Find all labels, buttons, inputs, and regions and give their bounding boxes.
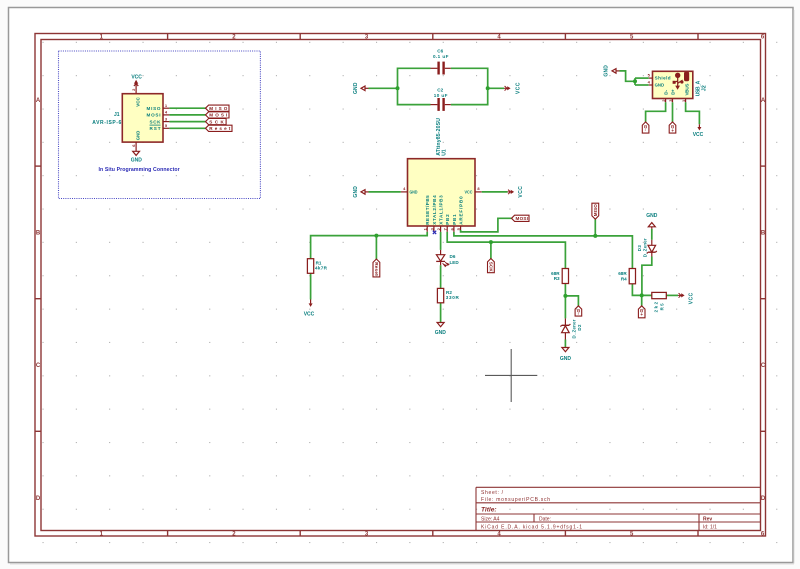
svg-text:Rev: Rev	[703, 516, 712, 522]
svg-text:In Situ Programming Connector: In Situ Programming Connector	[99, 167, 180, 173]
svg-text:C6: C6	[437, 48, 443, 53]
svg-text:D+: D+	[670, 125, 675, 132]
svg-text:D2: D2	[577, 324, 582, 331]
svg-text:D: D	[36, 496, 41, 502]
svg-text:AVR-ISP-6: AVR-ISP-6	[92, 120, 121, 126]
svg-text:68R: 68R	[551, 271, 560, 276]
svg-text:VCC: VCC	[693, 132, 704, 138]
svg-text:PB2: PB2	[445, 214, 450, 225]
svg-text:68R: 68R	[618, 271, 627, 276]
svg-text:MOSI: MOSI	[516, 216, 529, 221]
svg-text:SCK: SCK	[150, 119, 162, 124]
svg-text:MISO: MISO	[209, 106, 227, 111]
svg-text:VCC: VCC	[518, 186, 524, 198]
svg-text:D: D	[761, 496, 766, 502]
svg-text:D6: D6	[450, 254, 456, 259]
svg-text:U1: U1	[442, 149, 448, 156]
svg-text:10 uF: 10 uF	[434, 93, 448, 98]
svg-text:GND: GND	[435, 330, 447, 336]
svg-text:A: A	[761, 98, 766, 104]
svg-text:J2: J2	[702, 85, 708, 91]
svg-text:330R: 330R	[446, 295, 460, 300]
svg-text:D-: D-	[576, 309, 581, 315]
svg-text:SCK: SCK	[209, 119, 224, 124]
svg-text:D-: D-	[663, 89, 668, 94]
svg-text:2k2: 2k2	[653, 301, 658, 312]
svg-text:R4: R4	[621, 277, 627, 282]
svg-text:File: monsuperiPCB.sch: File: monsuperiPCB.sch	[481, 497, 550, 503]
svg-text:R5: R5	[660, 303, 665, 311]
svg-text:R3: R3	[554, 276, 560, 281]
svg-text:GND: GND	[135, 130, 140, 140]
svg-text:PB1: PB1	[452, 214, 457, 225]
svg-text:GND: GND	[353, 186, 359, 198]
svg-text:D+: D+	[639, 309, 644, 316]
svg-text:D-: D-	[643, 125, 648, 131]
svg-text:C2: C2	[437, 88, 443, 93]
svg-text:Size: A4: Size: A4	[481, 516, 500, 522]
svg-text:GND: GND	[560, 356, 572, 362]
svg-text:XTAL2/PB4: XTAL2/PB4	[432, 195, 437, 225]
svg-text:VBUS: VBUS	[684, 84, 689, 96]
svg-text:0.1 uF: 0.1 uF	[433, 54, 449, 59]
svg-text:GND: GND	[655, 82, 665, 87]
svg-text:GND: GND	[603, 65, 609, 77]
svg-text:GND: GND	[646, 213, 658, 219]
svg-text:D_Zener: D_Zener	[643, 238, 648, 257]
svg-text:RESET/PB5: RESET/PB5	[425, 195, 430, 225]
svg-text:MOSI: MOSI	[147, 113, 161, 118]
svg-text:Reset: Reset	[374, 262, 379, 276]
svg-text:Shield: Shield	[655, 76, 671, 81]
svg-text:VCC: VCC	[304, 311, 315, 317]
svg-text:B: B	[36, 231, 41, 237]
svg-text:D+: D+	[670, 89, 675, 95]
svg-text:GND: GND	[131, 158, 143, 164]
svg-text:B: B	[761, 231, 766, 237]
svg-text:Sheet: /: Sheet: /	[481, 490, 504, 496]
svg-text:Date:: Date:	[539, 516, 551, 522]
svg-text:SCK: SCK	[488, 262, 493, 273]
svg-text:GND: GND	[410, 190, 419, 195]
svg-text:J1: J1	[114, 112, 120, 118]
svg-text:VCC: VCC	[689, 292, 695, 304]
svg-text:A: A	[36, 98, 41, 104]
svg-text:VCC: VCC	[465, 190, 474, 195]
svg-text:4k7R: 4k7R	[315, 266, 328, 271]
svg-text:D_Zener: D_Zener	[572, 319, 577, 338]
svg-text:MISO: MISO	[593, 204, 598, 216]
svg-text:KiCad E.D.A. kicad 5.1.9+dfsg: KiCad E.D.A. kicad 5.1.9+dfsg1-1	[481, 525, 582, 531]
svg-text:C: C	[36, 363, 41, 369]
svg-text:MISO: MISO	[147, 106, 161, 111]
svg-text:VCC: VCC	[516, 82, 522, 94]
svg-text:Id: 1/1: Id: 1/1	[703, 525, 717, 531]
svg-text:VCC: VCC	[131, 75, 142, 81]
svg-text:Title:: Title:	[481, 507, 497, 514]
svg-text:D3: D3	[637, 245, 642, 252]
svg-text:XTAL1/PB3: XTAL1/PB3	[439, 195, 444, 225]
svg-text:AREF/PB0: AREF/PB0	[459, 196, 464, 225]
svg-text:VCC: VCC	[135, 97, 140, 107]
svg-text:GND: GND	[353, 82, 359, 94]
svg-text:C: C	[761, 363, 766, 369]
svg-text:LED: LED	[450, 260, 460, 265]
svg-text:RST: RST	[150, 126, 161, 131]
